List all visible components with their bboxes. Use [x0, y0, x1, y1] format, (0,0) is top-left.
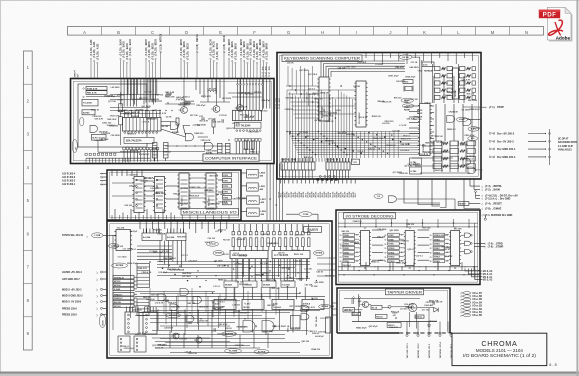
terminal diamond BD0	[145, 58, 147, 60]
keyboard scanning computer block outline	[277, 53, 481, 180]
wire stub BR2	[234, 64, 236, 79]
strobe top bus line 2	[338, 226, 478, 228]
gate G10 with oval	[447, 116, 455, 123]
wire synth sel into block	[103, 234, 116, 236]
wire stub BD1	[148, 62, 150, 79]
address callout row 2	[468, 269, 482, 274]
wire U3 to bus	[97, 140, 99, 152]
tapper vertical drops internal	[408, 312, 410, 327]
B1 extra horizontal bus segments	[110, 94, 160, 96]
B2 mesh low dots	[353, 134, 354, 135]
wire comb from top edge mid	[145, 79, 147, 103]
IC U31 A34 74LS374	[230, 251, 268, 259]
pdf icon page	[547, 7, 571, 40]
B4 mid horizontal wires left	[137, 245, 172, 247]
wire stub A11	[93, 62, 95, 79]
misc io small squares column	[223, 173, 232, 177]
tapper dashed bottom edge	[399, 332, 453, 334]
B4 gate G29	[186, 316, 194, 323]
IC U23 misc	[206, 173, 216, 209]
wire stub A10	[90, 60, 92, 79]
wire stub BR0	[228, 60, 230, 79]
vertical bus duct	[419, 60, 421, 103]
tapper bottom drop wires	[406, 322, 408, 334]
driver chain terminal 3	[548, 148, 551, 151]
transistor Q10	[362, 301, 368, 307]
gate G26 right cluster	[301, 314, 309, 320]
wire gate outputs to right edge	[468, 119, 482, 121]
key matrix vertical wires	[286, 90, 288, 158]
gate G2 B-RB6	[171, 122, 179, 130]
tapper label box	[386, 289, 424, 295]
edge connector J01 oval	[72, 140, 77, 153]
big gate G24	[262, 321, 274, 333]
relay LR05	[247, 183, 259, 191]
transistor Q2	[213, 106, 220, 113]
terminal diamond BA1	[123, 60, 125, 62]
IC U12 top comb	[282, 158, 284, 162]
row number strip frame	[23, 51, 32, 350]
tall net stub BRFCK	[223, 52, 225, 79]
signal label boxes cluster B	[113, 293, 134, 296]
wire stub BR5	[256, 64, 258, 79]
strobe top bus line 1	[338, 222, 478, 224]
B2 cpu left wires	[409, 105, 420, 107]
relay LR07	[247, 208, 260, 216]
misc io wires bottom to timer block	[114, 209, 116, 221]
setpos label box	[343, 308, 355, 313]
B2 matrix vertical comb to bottom ICs	[282, 158, 284, 162]
B5 inter cluster wires	[372, 229, 383, 231]
IC row U42 A1/4 TnL5004	[272, 299, 294, 309]
column divider N	[509, 27, 511, 36]
column divider D	[169, 27, 171, 36]
timer horizontal bus lines	[157, 264, 310, 266]
wire stub BR7	[262, 62, 264, 79]
B4 verticals pads to mid ICs	[235, 259, 237, 281]
pdf icon adobe swirl inner	[555, 22, 561, 35]
keyboard block inner margin line	[280, 55, 478, 176]
wire stop signal to right edge	[463, 106, 481, 108]
strobe cluster 2 vertical IC	[451, 231, 460, 266]
timer label row boxes MCSDH	[224, 281, 238, 287]
title block border	[452, 333, 547, 365]
wire stub BD0	[145, 60, 147, 79]
timer block inner margin line	[110, 224, 329, 355]
B4 transistor Q31	[196, 337, 202, 343]
B4 low verticals	[157, 309, 159, 330]
terminal diamond BD3	[155, 58, 157, 60]
B1 mid dots	[123, 110, 124, 111]
strobe cluster 2 cell wires	[445, 234, 450, 236]
IC U5 bottom pads	[235, 139, 238, 142]
miscellaneous io block outline	[107, 170, 241, 220]
relay group wires	[241, 172, 247, 174]
timer lower vertical wires	[149, 288, 151, 312]
tapper diamond terminal	[359, 311, 361, 313]
B1 horizontal rails	[86, 96, 120, 98]
resistor R48 zigzag	[185, 102, 191, 105]
IC U35 small	[291, 316, 301, 330]
wire stub BR8	[266, 64, 268, 79]
timer top pad row upper	[232, 232, 235, 235]
computer interface label box	[203, 154, 259, 161]
oval SETIME right	[314, 251, 325, 256]
timer mid vertical wires	[231, 259, 233, 281]
terminal diamond BR1	[231, 60, 233, 62]
row divider 6	[23, 216, 32, 218]
wire stub BA3	[129, 60, 131, 79]
miscellaneous io inner margin line	[109, 172, 238, 217]
oval net 1-CMB external	[92, 233, 104, 238]
strobe wires exit right	[474, 242, 485, 244]
gate G20	[180, 289, 189, 296]
terminal diamond BC1	[213, 60, 215, 62]
pdf icon banner shading	[539, 10, 560, 12]
miscellaneous io label box	[181, 209, 239, 215]
strobe cluster 2 diamond bottom	[454, 267, 456, 269]
strobe cell bottom drops	[347, 262, 349, 271]
strobe bottom bus dots	[343, 274, 344, 275]
bus vertical with terminal	[475, 193, 477, 199]
terminal diamond A12	[97, 62, 99, 64]
terminal diamond BD0	[180, 58, 182, 60]
B2 right horizontals dense	[422, 145, 433, 147]
strobe cluster 2 wire dots	[447, 234, 448, 235]
timer bus junction dots	[161, 261, 162, 262]
IC U4 label box	[124, 137, 154, 143]
gate G1 B-PU	[90, 125, 98, 132]
tapper bottom box label	[387, 323, 401, 328]
address callout row 4	[475, 269, 483, 280]
pdf icon red banner	[539, 10, 560, 19]
strobe cluster 1 vertical IC	[405, 231, 414, 266]
resistor pack label RN2 4.7K	[86, 91, 107, 95]
tapper internal horizontal	[352, 321, 437, 323]
terminal diamond BD2	[187, 62, 189, 64]
timer left bus vertical	[112, 235, 114, 330]
IC row U43 4 RULE	[302, 299, 324, 309]
strobe right inner rail	[474, 223, 476, 279]
IC U36 right edge	[326, 317, 331, 333]
keyboard top bus to D15 box	[422, 62, 434, 67]
relay LR04	[247, 169, 259, 178]
address callout row 3	[472, 269, 483, 277]
retire oval	[112, 263, 128, 268]
resistor R51 under Q1	[176, 118, 179, 125]
wire stub BR1	[231, 62, 233, 79]
IC U3 B-PU 74LS15	[92, 134, 107, 140]
IC U38 dip bottom left2	[143, 312, 157, 334]
B1 lower-left vertical comb to bottom edge	[85, 158, 87, 163]
strobe cluster 1 diamond bottom	[409, 267, 411, 269]
computer interface block outline	[71, 79, 275, 164]
tapper wires below block	[406, 332, 408, 334]
terminal diamond BR0	[228, 58, 230, 60]
transistor Q1	[181, 107, 188, 114]
misc io wires internal	[144, 180, 155, 182]
strobe bottom bus 1	[338, 270, 480, 272]
wire comb right top	[237, 79, 239, 84]
diamond terminal D1	[155, 109, 157, 111]
driver chain terminal 4	[548, 156, 551, 159]
IC U22 misc	[179, 173, 189, 209]
IC row U41 74C906	[242, 299, 264, 309]
computer interface inner margin line	[73, 81, 271, 161]
row divider 7	[23, 249, 32, 251]
gate G4 B-PBL	[205, 142, 214, 150]
wire stub A12	[96, 64, 98, 79]
wire stub BA0	[120, 60, 122, 79]
wire stub BR2	[246, 64, 248, 79]
resistor chain R11	[119, 104, 123, 112]
terminal diamond BR4	[253, 60, 255, 62]
address callout row 1	[465, 269, 483, 272]
reset label wire	[469, 203, 480, 205]
column divider H	[305, 27, 307, 36]
capacitor C74	[201, 117, 205, 119]
B2 extra dots	[289, 131, 290, 132]
B3 internal rails	[112, 182, 134, 184]
wires keyboard bottom to strobe top	[404, 179, 440, 203]
tapper wires extra	[344, 298, 420, 300]
column divider G	[271, 27, 273, 36]
row divider 9	[23, 316, 32, 318]
capacitor C75	[221, 119, 223, 123]
oval net B-CL05	[207, 242, 219, 246]
column divider L	[441, 27, 443, 36]
B4 extra center verticals	[165, 296, 167, 324]
IC row U40 A1/2 TnL5004	[214, 299, 236, 309]
small boxes 27	[352, 159, 360, 165]
computer interface label box redraw	[203, 154, 259, 161]
signal label boxes cluster A	[113, 276, 134, 279]
wire comb right to buffer	[237, 85, 239, 110]
keyboard label underline	[285, 60, 359, 62]
gate G21	[193, 297, 202, 304]
relay LR06	[247, 196, 260, 204]
B2 mesh extra verticals low	[351, 132, 353, 159]
wire stub BC0	[210, 60, 212, 79]
gate G25 right cluster	[301, 306, 309, 312]
B1 extra junction dots	[120, 94, 121, 95]
oval SETIME left	[213, 251, 224, 256]
wire stub BD2	[186, 64, 188, 79]
IC U5 R27 74LS244 buffer	[233, 110, 262, 120]
timer lower horizontal wires	[135, 291, 215, 293]
resistor pack label RN1 4.7K	[86, 87, 107, 91]
timer top pad stubs	[232, 224, 234, 232]
B4 verticals mid to low ICs	[225, 287, 227, 299]
wire stub BR1	[243, 62, 245, 79]
B4 long verticals from pad rows	[233, 247, 235, 251]
cluster A vertical rails	[432, 64, 434, 103]
pdf icon folded corner	[565, 7, 571, 13]
timer long rail B	[135, 295, 325, 297]
driver chain terminal 1	[548, 132, 551, 135]
tapper input diamonds	[353, 297, 355, 299]
wire stub BD0	[180, 60, 182, 79]
strobe right gates wires	[461, 234, 465, 236]
terminal diamond BC0	[210, 58, 212, 60]
keyboard wires right cluster down	[435, 104, 437, 141]
IC U40b dip bottom small2	[134, 336, 146, 352]
reset oval	[401, 98, 414, 102]
page left border edge	[0, 0, 1, 376]
key matrix horizontal wires upper	[286, 85, 319, 87]
inductor L48	[176, 99, 185, 101]
net oval D16	[399, 55, 412, 60]
resistor chain R12	[119, 117, 123, 125]
gate G11 with oval	[463, 119, 471, 126]
wire stub BR6	[259, 60, 261, 79]
oval PL-TIME	[225, 349, 242, 354]
oval ACTIVE bottom	[254, 350, 269, 355]
resistor network RN10 rows	[433, 141, 442, 146]
resistor pack RP3 vertical	[218, 143, 223, 158]
IC U11 74C922 right	[356, 81, 366, 127]
terminal diamond BR2	[235, 62, 237, 64]
B5 bottom rails extra	[338, 266, 478, 268]
row divider 5	[23, 183, 32, 185]
IC U17 U-TAL boxes	[410, 158, 422, 165]
column divider I	[339, 27, 341, 36]
terminal diamond BA3	[129, 58, 131, 60]
io strobe decoding block outline	[336, 210, 480, 285]
resistor network RN11 rows	[450, 141, 459, 146]
net oval B15b	[402, 104, 414, 108]
oval net C70M	[299, 212, 312, 217]
resistor network RN12 rows	[467, 141, 476, 146]
strobe cluster 2 cells	[433, 233, 445, 236]
timer label box	[304, 227, 322, 233]
pdf icon page shadow	[549, 9, 573, 42]
terminal diamond BR7	[263, 60, 265, 62]
bottom edge dark pads	[317, 178, 320, 181]
terminal diamond BD1	[148, 60, 150, 62]
bus above U4	[110, 110, 161, 112]
IC U4 82A 74LS374 latch	[123, 118, 162, 132]
terminal diamond A11	[93, 60, 95, 62]
wire comb from top edge left	[120, 79, 122, 107]
junctions on B1-timer wires	[269, 198, 271, 200]
IC U21 misc	[155, 177, 165, 213]
tapper resistor R62	[352, 313, 361, 316]
IC U38 comb	[144, 307, 146, 313]
column divider K	[407, 27, 409, 36]
strobe cluster 0 cell wires	[355, 234, 360, 236]
column letter strip frame	[68, 27, 544, 36]
B3 IC interior hatches	[136, 179, 143, 181]
IC U14 microcomputer	[420, 104, 431, 156]
IC U37 dip bottom left	[125, 312, 139, 334]
B4 top comb from edge	[139, 221, 141, 229]
IC U4 top pin comb	[124, 111, 126, 117]
IC U4 pin bubbles	[124, 132, 126, 134]
wire stub BD3	[155, 60, 157, 79]
tapper inner margin line	[339, 290, 447, 331]
B4 dots grid	[159, 261, 160, 262]
IC U13 bottom comb	[327, 170, 329, 179]
wire stub BD2	[151, 64, 153, 79]
diamond at RN labels	[83, 88, 85, 90]
tapper driver block outline	[337, 288, 450, 333]
wire RP1 to bottom	[154, 158, 156, 161]
net oval U_	[80, 117, 84, 126]
B4 gate G28	[170, 304, 178, 311]
wire G3 output	[198, 136, 208, 138]
B4 mid left verticals	[159, 241, 161, 262]
IC U21 bubbles	[156, 179, 158, 181]
strobe cluster 0 wire dots	[356, 234, 357, 235]
wire bus below keyboard to strobe block	[397, 198, 455, 200]
resistor pack RP1 vertical	[153, 143, 158, 159]
cap C30	[404, 100, 408, 102]
wire bus drop to strobe block	[454, 199, 456, 210]
oval net 1-CMB internal	[109, 244, 120, 249]
IC U2 label	[82, 110, 95, 115]
terminal diamond BR2	[247, 62, 249, 64]
row divider 3	[23, 116, 32, 118]
B4 extra center wires	[150, 300, 240, 302]
strobe cluster 0 vertical IC	[361, 231, 370, 266]
capacitor can C81	[252, 141, 255, 149]
tapper cap C50	[432, 301, 434, 305]
resistor pack RP4 vertical	[226, 143, 231, 158]
IC U5 label box	[235, 122, 262, 128]
B4 small caps scattered	[188, 321, 192, 323]
key matrix bus bundle	[288, 131, 420, 133]
IC U10 74C922 left	[319, 77, 329, 121]
terminal diamond BD1	[183, 60, 185, 62]
B1 dense top verticals	[127, 79, 129, 95]
wire Q1 collector	[183, 79, 185, 107]
timer left bus vertical 2	[130, 251, 132, 319]
wire stub BA2	[126, 64, 128, 79]
resistor network cluster top right block A	[435, 67, 441, 71]
timer top pad row lower	[232, 238, 235, 247]
terminal diamond A10	[90, 58, 92, 60]
column divider F	[237, 27, 239, 36]
terminal diamond BA0	[120, 58, 122, 60]
timer bottom wires	[155, 341, 230, 343]
page top border edge	[0, 0, 579, 1]
column divider B	[101, 27, 103, 36]
keyboard wires cpu to rnet	[430, 105, 434, 107]
resistor network cluster top right block B	[460, 67, 466, 71]
strobe cluster 2 diamond	[454, 227, 456, 229]
bus above U4 second	[110, 107, 150, 109]
IC U30 74LS374 top left	[116, 230, 131, 251]
paper grain filter	[0, 0, 1, 1]
wire Q3 collector	[239, 79, 241, 105]
row divider 4	[23, 150, 32, 152]
io strobe inner margin line	[338, 212, 477, 282]
keyboard block label box	[282, 55, 362, 62]
column divider C	[135, 27, 137, 36]
transistor Q3	[237, 105, 244, 112]
wire RP2 to bottom	[165, 158, 167, 161]
strobe cluster 0 cells	[343, 233, 355, 236]
resistor R62 box	[376, 314, 388, 318]
wires label boxes to arrays	[134, 276, 137, 278]
strobe cluster 0 diamond bottom	[364, 267, 366, 269]
page bottom lower band	[0, 374, 579, 376]
big gate G23	[243, 321, 255, 333]
resistor pack RP2 vertical	[164, 143, 169, 159]
timer right wires to strobe block	[317, 257, 336, 259]
B3 bottom comb into timer	[111, 215, 113, 221]
